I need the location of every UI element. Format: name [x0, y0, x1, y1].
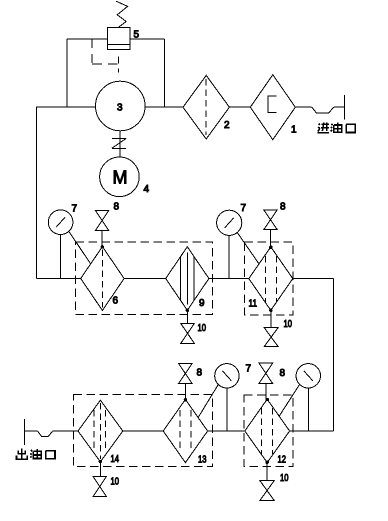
wire: dip to filter14: [53, 430, 79, 432]
svg-text:4: 4: [144, 184, 150, 195]
pressure gauge 7 (row2 left): [48, 210, 73, 279]
wire: relief valve right lead: [130, 38, 164, 40]
label 8 (row3 right): [280, 368, 286, 379]
label 13: [198, 455, 207, 466]
wire: filter9 drain stem: [186, 309, 188, 323]
label 9: [199, 298, 205, 309]
wire: row2 main line left: [37, 278, 81, 280]
relief valve 5: [108, 27, 130, 49]
filter 14: [78, 400, 123, 462]
svg-text:5: 5: [134, 30, 140, 41]
filter 12: [245, 398, 290, 462]
svg-text:6: 6: [113, 296, 119, 307]
dashed enclosure box A: [75, 242, 212, 314]
pump 3: [96, 81, 146, 131]
svg-text:7: 7: [72, 204, 78, 215]
valve 8 (row2 left): [95, 210, 108, 246]
label 10 (row3 right): [280, 473, 289, 484]
strainer 1: [250, 75, 295, 140]
dashed enclosure box D: [244, 395, 293, 467]
wire: filter13 to filter12: [208, 430, 245, 432]
outlet terminal: [23, 419, 25, 445]
pressure gauge 7 (row3 right): [296, 364, 320, 431]
svg-text:8: 8: [197, 368, 203, 379]
wire: strainer to inlet: [295, 106, 311, 108]
dashed enclosure box C: [74, 395, 213, 467]
spring of relief valve 5: [116, 1, 127, 27]
svg-text:7: 7: [241, 203, 247, 214]
label 10 (row3 left): [111, 477, 120, 488]
svg-text:3: 3: [117, 103, 123, 114]
filter 2: [183, 75, 229, 139]
svg-text:1: 1: [291, 125, 297, 136]
label 1: [291, 125, 297, 136]
pilot line (dashed) of relief valve: [92, 39, 119, 73]
wire: pump suction left wall: [37, 107, 96, 279]
svg-text:12: 12: [278, 455, 287, 466]
drain valve 10 (row2 right): [264, 328, 278, 347]
label 7 (row2 right): [241, 203, 247, 214]
svg-text:10: 10: [284, 319, 293, 330]
motor M 4: [100, 157, 140, 197]
label 8 (row3 left): [197, 368, 203, 379]
pressure gauge 7 (row3 left): [215, 364, 239, 431]
wire: filter9 to filter11: [209, 278, 249, 280]
svg-text:10: 10: [280, 473, 289, 484]
wire: gauge diagonal to filter 12: [279, 384, 300, 416]
wire: filter12 drain stem: [266, 461, 268, 480]
svg-text:10: 10: [111, 477, 120, 488]
svg-text:8: 8: [114, 202, 120, 213]
svg-text:M: M: [113, 168, 128, 188]
label 12: [278, 455, 287, 466]
drain valve 10 (row2 left): [181, 324, 195, 344]
wire: gauge diagonal to filter 13: [198, 384, 218, 417]
svg-text:2: 2: [224, 120, 230, 131]
label 7 (row3): [246, 364, 252, 375]
label 11: [249, 299, 258, 310]
wire: relief loop left branch: [66, 39, 68, 107]
label 10 (row2 left): [198, 323, 207, 334]
filter 9: [166, 247, 209, 311]
label 5: [134, 30, 140, 41]
text 进油口 (oil inlet): [318, 123, 330, 133]
label 6: [113, 296, 119, 307]
text 出油口 (oil outlet): [16, 449, 27, 460]
svg-text:8: 8: [280, 368, 286, 379]
svg-text:8: 8: [280, 202, 286, 213]
wire: to inlet terminal: [334, 106, 345, 108]
svg-text:14: 14: [111, 454, 120, 465]
valve 8 (row3 right): [259, 363, 273, 399]
svg-text:13: 13: [198, 455, 207, 466]
wire: gauge diagonal to filter 11: [237, 232, 259, 264]
drain valve 10 (row3 right): [260, 481, 275, 501]
pressure gauge 7 (row2 right): [217, 210, 242, 278]
wire: filter2 to strainer1: [229, 106, 250, 108]
wire: filter14 to filter13: [123, 430, 163, 432]
valve 8 (row2 right): [264, 210, 278, 247]
filter 11: [249, 246, 293, 310]
inlet terminal: [344, 95, 346, 120]
svg-text:10: 10: [198, 323, 207, 334]
filter 13: [163, 399, 207, 463]
label 14: [111, 454, 120, 465]
drain valve 10 (row3 left): [93, 477, 106, 497]
svg-text:7: 7: [246, 364, 252, 375]
wire: gauge diagonal to filter 6: [69, 231, 91, 264]
flexible hose dip (outlet): [38, 431, 53, 436]
valve 8 (row3 left): [179, 364, 193, 400]
label 10 (row2 right): [284, 319, 293, 330]
wire: outlet lead: [24, 430, 37, 432]
coupling shaft pump-motor: [112, 131, 126, 157]
label 8 (row2 right): [280, 202, 286, 213]
wire: filter6 to filter9: [124, 278, 166, 280]
wire: pump outlet: [145, 106, 183, 108]
label 2: [224, 120, 230, 131]
dashed enclosure box B: [245, 242, 294, 315]
wire: filter11 to right wall: [293, 278, 334, 280]
wire: filter14 drain stem: [99, 462, 101, 477]
label 8 (row2 left): [114, 202, 120, 213]
svg-text:9: 9: [199, 298, 205, 309]
wire: filter11 drain stem: [270, 309, 272, 327]
label 7 (row2 left): [72, 204, 78, 215]
wire: right wall down: [332, 279, 334, 432]
flexible hose dip (inlet): [312, 107, 334, 113]
wire: relief loop right branch: [163, 39, 165, 107]
filter 6: [81, 246, 124, 311]
wire: right wall to filter12: [290, 430, 334, 432]
label 4: [144, 184, 150, 195]
svg-text:11: 11: [249, 299, 258, 310]
wire: relief valve left lead: [67, 38, 108, 40]
